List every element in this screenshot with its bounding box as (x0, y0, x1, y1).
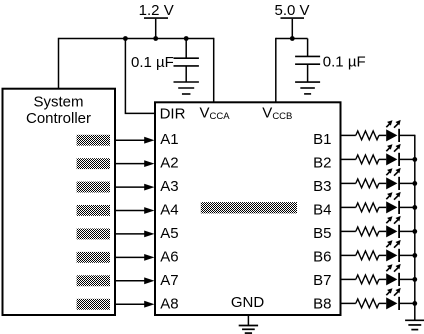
svg-text:B4: B4 (313, 201, 331, 218)
pin label B4 (313, 201, 331, 218)
pin label A4 (160, 201, 178, 218)
wire LED cathode to rail (400, 206, 415, 208)
wire LED common cathode rail (414, 135, 416, 321)
resistor R6 (356, 251, 379, 260)
wire to VCCA pin (213, 38, 215, 102)
wire down to System Controller (58, 38, 60, 89)
resistor R2 (356, 155, 379, 164)
svg-text:A6: A6 (160, 248, 178, 265)
wire (379, 278, 386, 280)
resistor R7 (356, 275, 379, 284)
power rail 5.0 V (274, 2, 309, 39)
svg-text:B5: B5 (313, 225, 331, 242)
LED D1 (386, 120, 401, 142)
svg-text:A2: A2 (160, 154, 178, 171)
wire arrow to pin A3 (115, 184, 155, 191)
resistor R3 (356, 179, 379, 188)
wire arrow to pin A8 (115, 301, 155, 308)
wire arrow to pin A5 (115, 231, 155, 238)
svg-text:GND: GND (231, 294, 265, 311)
wire pin B2 to resistor (341, 158, 356, 160)
wire 1.2V net horizontal (59, 38, 214, 40)
pin label B1 (313, 131, 331, 148)
pin label VCCB (262, 104, 292, 122)
pin label B2 (313, 154, 331, 171)
resistor R5 (356, 227, 379, 236)
ground C2 (295, 64, 320, 94)
wire (379, 230, 386, 232)
wire pin B1 to resistor (341, 134, 356, 136)
LED D7 (386, 264, 401, 286)
wire LED cathode to rail (400, 302, 415, 304)
wire LED cathode to rail (400, 134, 415, 136)
wire (379, 302, 386, 304)
junction dot rail B3 (412, 181, 417, 186)
svg-text:0.1 µF: 0.1 µF (131, 54, 174, 71)
junction dot rail B4 (412, 205, 417, 210)
svg-text:B3: B3 (313, 178, 331, 195)
pin label A5 (160, 225, 178, 242)
wire LED cathode to rail (400, 278, 415, 280)
ground LED rail (405, 320, 424, 329)
wire (379, 158, 386, 160)
resistor R4 (356, 203, 379, 212)
wire (379, 134, 386, 136)
capacitor C1 0.1 uF (174, 39, 199, 66)
LED D4 (386, 192, 401, 214)
svg-text:B7: B7 (313, 272, 331, 289)
pin label A2 (160, 154, 178, 171)
wire LED cathode to rail (400, 254, 415, 256)
svg-text:B6: B6 (313, 248, 331, 265)
LED D3 (386, 168, 401, 190)
controller output bar 8 (77, 299, 110, 310)
junction dot rail B5 (412, 229, 417, 234)
pin label B6 (313, 248, 331, 265)
pin label A1 (160, 131, 178, 148)
controller output bar 7 (77, 275, 110, 286)
svg-text:0.1 µF: 0.1 µF (323, 54, 366, 71)
junction dot DIR tap (123, 36, 128, 41)
pin label B7 (313, 272, 331, 289)
wire arrow to pin A2 (115, 160, 155, 167)
wire (379, 254, 386, 256)
wire LED cathode to rail (400, 182, 415, 184)
svg-text:B1: B1 (313, 131, 331, 148)
junction dot rail B8 (412, 301, 417, 306)
wire pin B4 to resistor (341, 206, 356, 208)
wire arrow to pin A6 (115, 254, 155, 261)
pin label A8 (160, 295, 178, 312)
wire pin B7 to resistor (341, 278, 356, 280)
svg-text:System: System (33, 94, 83, 111)
IC U1 level translator box (155, 102, 341, 315)
junction dot rail B2 (412, 157, 417, 162)
svg-text:A8: A8 (160, 295, 178, 312)
svg-text:Controller: Controller (26, 110, 91, 127)
LED D2 (386, 144, 401, 166)
wire arrow to pin A4 (115, 207, 155, 214)
resistor R8 (356, 299, 379, 308)
controller output bar 2 (77, 158, 110, 169)
part number redacted bar (201, 202, 297, 213)
svg-text:A4: A4 (160, 201, 178, 218)
wire pin B5 to resistor (341, 230, 356, 232)
controller output bar 1 (77, 135, 110, 146)
controller output bar 3 (77, 182, 110, 193)
power rail 1.2 V (139, 2, 174, 39)
wire LED cathode to rail (400, 158, 415, 160)
controller output bar 5 (77, 229, 110, 240)
ground GND pin (239, 315, 258, 333)
svg-text:A7: A7 (160, 272, 178, 289)
pin label VCCA (200, 104, 231, 122)
pin label B8 (313, 295, 331, 312)
svg-text:5.0 V: 5.0 V (274, 2, 309, 19)
LED D6 (386, 240, 401, 262)
LED D8 (386, 288, 401, 310)
svg-text:B8: B8 (313, 295, 331, 312)
label C1 value 0.1 uF (131, 54, 174, 71)
svg-text:B2: B2 (313, 154, 331, 171)
ground C1 (174, 66, 199, 94)
junction dot rail B6 (412, 253, 417, 258)
wire arrow to pin A7 (115, 277, 155, 284)
wire 5.0V net horizontal (276, 38, 308, 40)
svg-text:A3: A3 (160, 178, 178, 195)
wire LED cathode to rail (400, 230, 415, 232)
wire pin B8 to resistor (341, 302, 356, 304)
pin label A7 (160, 272, 178, 289)
label C2 value 0.1 uF (323, 54, 366, 71)
svg-text:1.2 V: 1.2 V (139, 2, 174, 19)
resistor R1 (356, 131, 379, 140)
wire arrow to pin A1 (115, 137, 155, 144)
svg-text:DIR: DIR (160, 106, 186, 123)
junction dot 5.0V feed (290, 36, 295, 41)
svg-text:A5: A5 (160, 225, 178, 242)
controller output bar 4 (77, 205, 110, 216)
junction dot rail B7 (412, 277, 417, 282)
wire pin B6 to resistor (341, 254, 356, 256)
controller output bar 6 (77, 252, 110, 263)
pin label B3 (313, 178, 331, 195)
wire (379, 182, 386, 184)
wire (379, 206, 386, 208)
system controller box (3, 89, 116, 315)
pin label DIR (160, 106, 186, 123)
pin label A3 (160, 178, 178, 195)
capacitor C2 0.1 uF (295, 39, 320, 65)
pin label GND (231, 294, 265, 311)
junction dot 1.2V feed (153, 36, 158, 41)
pin label A6 (160, 248, 178, 265)
svg-text:A1: A1 (160, 131, 178, 148)
pin label B5 (313, 225, 331, 242)
junction dot C1 tap (184, 36, 189, 41)
wire pin B3 to resistor (341, 182, 356, 184)
LED D5 (386, 216, 401, 238)
wire to DIR pin (125, 39, 154, 114)
wire to VCCB pin (275, 38, 277, 102)
